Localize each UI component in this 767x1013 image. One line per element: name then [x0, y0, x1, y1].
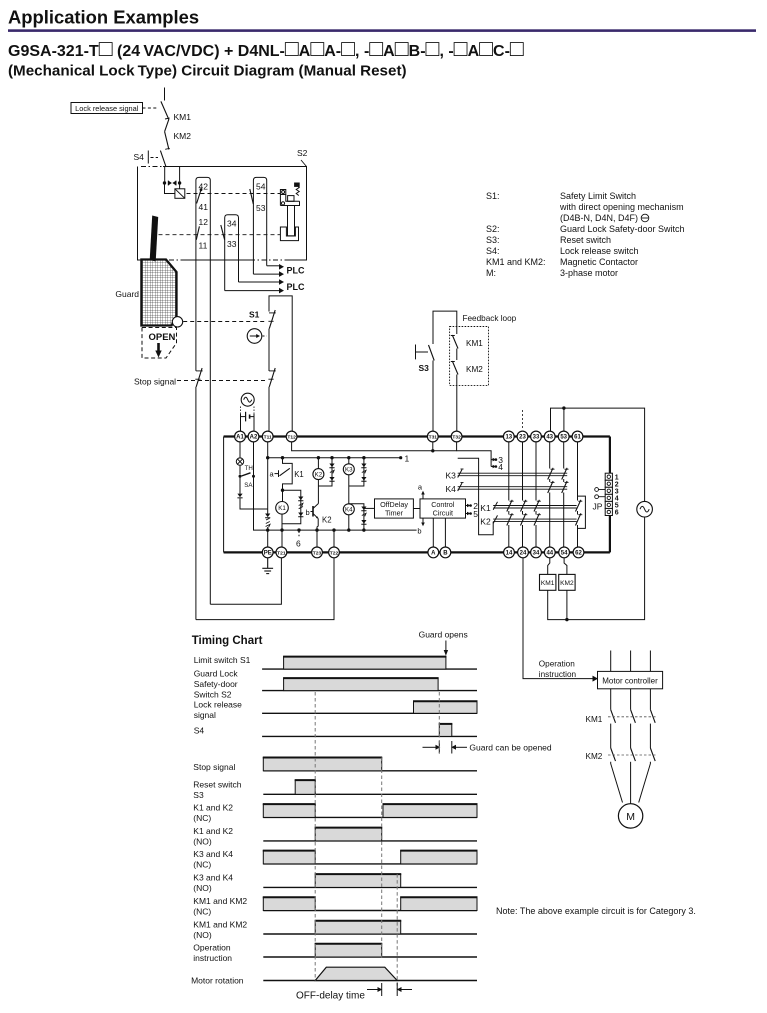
- wire diode branch to OffDelay Timer: [364, 507, 375, 509]
- svg-text:K4: K4: [446, 484, 457, 494]
- wire S2 11-line to T22: [196, 558, 334, 620]
- wire K3 to K4: [348, 475, 350, 504]
- timing dashed guide line 2: [381, 758, 383, 959]
- terminal B: [440, 547, 451, 558]
- svg-text:(NC): (NC): [193, 906, 211, 916]
- svg-text:Application Examples: Application Examples: [8, 7, 199, 28]
- svg-text:Feedback loop: Feedback loop: [463, 314, 517, 323]
- S1 direct-opening symbol (circle with arrow): [247, 329, 262, 344]
- wire 54 to PLC: [253, 273, 279, 275]
- legend direct-opening icon: [641, 214, 649, 222]
- terminal PE: [262, 547, 273, 558]
- open direction arrow: [155, 343, 161, 358]
- contact blade 34-33: [221, 225, 225, 240]
- terminal 13: [503, 431, 514, 442]
- wire B to control circuit: [444, 518, 446, 547]
- svg-text:S3: S3: [419, 363, 430, 373]
- svg-text:S3: S3: [193, 790, 204, 800]
- wire 53 to PLC: [267, 265, 279, 267]
- terminal A2: [248, 431, 259, 442]
- contact blade 12-11: [196, 226, 199, 239]
- svg-text:OFF-delay time: OFF-delay time: [296, 991, 365, 1002]
- wire battery to A1: [240, 414, 242, 431]
- relay K1 control contact a: [283, 458, 293, 502]
- wire A to control circuit: [432, 518, 434, 547]
- contact circuit wire x=577.5: [577, 442, 579, 501]
- wire K1 coil to T21: [281, 514, 283, 547]
- timing dashed guide line 1: [314, 692, 316, 981]
- svg-text:S1: S1: [249, 310, 260, 320]
- svg-text:Motor controller: Motor controller: [602, 676, 658, 685]
- svg-text:6: 6: [296, 539, 301, 549]
- svg-text:3-phase motor: 3-phase motor: [560, 268, 618, 278]
- internal supply bus node 1: [268, 457, 401, 459]
- svg-text:K3: K3: [446, 471, 457, 481]
- guard can be opened annotation: [423, 746, 437, 748]
- junction above 53: [562, 406, 565, 409]
- terminal 44: [544, 547, 555, 558]
- terminal A1: [235, 431, 246, 442]
- svg-text:5: 5: [615, 503, 619, 510]
- svg-text:K4: K4: [345, 507, 353, 514]
- relay coils K3 and K4 branch: [347, 456, 350, 459]
- heading underline rule: [8, 29, 756, 32]
- svg-text:K1 and K2: K1 and K2: [193, 803, 233, 813]
- relay unit right bold bus with JP: [609, 437, 611, 553]
- svg-text:Motor rotation: Motor rotation: [191, 976, 244, 986]
- svg-text:signal: signal: [194, 710, 216, 720]
- svg-text:PLC: PLC: [287, 266, 306, 276]
- svg-text:PLC: PLC: [287, 282, 306, 292]
- svg-text:M: M: [626, 811, 635, 823]
- svg-text:Safety Limit Switch: Safety Limit Switch: [560, 191, 636, 201]
- S2 contact block 34/33: [225, 215, 239, 291]
- wire KM coils to AC return: [548, 517, 645, 620]
- wire A1 branch join T11 line: [240, 498, 268, 509]
- switch S2 enclosure box: [163, 167, 307, 261]
- svg-text:34: 34: [533, 550, 540, 556]
- wire from S4 to junction node: [164, 167, 166, 184]
- terminal T11: [262, 431, 273, 442]
- svg-text:K2: K2: [322, 516, 332, 525]
- tap to points 3 and 4: [457, 451, 492, 467]
- contactor coil KM1: [540, 574, 556, 590]
- wire 44 to KM1 coil: [548, 558, 550, 575]
- contact circuit wire x=563.7: [563, 442, 565, 469]
- terminal T22: [329, 547, 340, 558]
- svg-text:KM2: KM2: [586, 752, 603, 761]
- svg-text:24: 24: [520, 550, 527, 556]
- svg-text:14: 14: [506, 550, 513, 556]
- flyback diodes on K1 branch: [298, 497, 303, 501]
- terminal 43: [544, 431, 555, 442]
- svg-text:A2: A2: [250, 434, 258, 440]
- svg-text:61: 61: [574, 434, 581, 440]
- svg-text:33: 33: [533, 434, 540, 440]
- svg-text:S3:: S3:: [486, 235, 500, 245]
- svg-text:with direct opening mechanism: with direct opening mechanism: [559, 202, 684, 212]
- svg-text:Guard: Guard: [115, 289, 139, 299]
- K4 row left actuator tick: [458, 483, 462, 491]
- svg-text:K3 and K4: K3 and K4: [193, 849, 233, 859]
- wires KM2 to motor: [611, 762, 623, 803]
- svg-text:T22: T22: [330, 550, 339, 556]
- wire S1 branch loop top: [269, 296, 292, 431]
- switch S4 lock release switch: [160, 151, 166, 167]
- motor controller output lines: [610, 689, 612, 710]
- internal bus from T12 to T31 T32: [292, 442, 457, 451]
- svg-text:instruction: instruction: [193, 953, 232, 963]
- stop contact on S2 branch wire: [196, 368, 203, 387]
- svg-text:4: 4: [498, 462, 503, 472]
- AC source circle at A1/A2: [241, 393, 254, 406]
- wire T11 down to PE with protection elements: [267, 442, 269, 514]
- control circuit arrow b: [422, 518, 424, 523]
- svg-text:M:: M:: [486, 268, 496, 278]
- contactor coil KM2: [559, 574, 575, 590]
- terminal T21: [276, 547, 287, 558]
- svg-text:T23: T23: [313, 550, 322, 556]
- svg-text:(D4B-N, D4N, D4F): (D4B-N, D4N, D4F): [560, 213, 638, 223]
- terminal 53: [558, 431, 569, 442]
- svg-text:54: 54: [256, 182, 266, 192]
- wire A2 to internal bottom bus: [254, 442, 417, 530]
- svg-text:S4:: S4:: [486, 246, 500, 256]
- contact circuit wire x=549.7: [549, 442, 551, 469]
- svg-text:Timing Chart: Timing Chart: [192, 635, 263, 647]
- svg-text:S2: S2: [297, 148, 308, 158]
- dashed link stop signal: [177, 380, 266, 382]
- 3-phase motor M: [618, 804, 642, 828]
- junction node 6 tap: [297, 528, 300, 531]
- junction T31 on bus: [431, 449, 434, 452]
- wire 34 to PLC: [225, 290, 279, 292]
- contact KM1 in feedback loop: [451, 335, 458, 349]
- svg-text:Reset switch: Reset switch: [193, 780, 241, 790]
- svg-text:KM1: KM1: [586, 715, 603, 724]
- relay unit top terminal bus: [224, 435, 610, 437]
- svg-text:K1: K1: [480, 503, 491, 513]
- svg-text:Circuit: Circuit: [433, 508, 453, 517]
- terminal 61: [572, 431, 583, 442]
- terminal 14: [504, 547, 515, 558]
- relay coil K4: [343, 504, 354, 515]
- switch S1 contact: [269, 310, 276, 329]
- svg-text:53: 53: [256, 203, 266, 213]
- junction KM2 return: [565, 618, 568, 621]
- relay coil K2: [317, 456, 320, 459]
- control circuit tap 2: [466, 505, 469, 507]
- svg-text:T11: T11: [264, 434, 272, 440]
- svg-text:62: 62: [575, 550, 582, 556]
- svg-text:KM1: KM1: [174, 112, 192, 122]
- K3 linkage bar: [458, 472, 568, 474]
- svg-text:1: 1: [405, 453, 410, 463]
- contact KM2 (NC in lock release line): [165, 132, 169, 150]
- K2 linkage bar: [493, 518, 576, 520]
- K2 row left actuator tick: [493, 515, 497, 523]
- reset switch S3 contact: [429, 345, 435, 361]
- K3 row left actuator tick: [458, 470, 462, 478]
- svg-text:Operation: Operation: [539, 660, 575, 669]
- svg-text:(NC): (NC): [193, 860, 211, 870]
- control circuit tap 5: [466, 513, 469, 515]
- wire battery to A2: [253, 414, 255, 431]
- flyback diode branch K4: [349, 504, 364, 530]
- svg-text:KM1 and KM2: KM1 and KM2: [193, 919, 247, 929]
- svg-text:Lock release switch: Lock release switch: [560, 246, 639, 256]
- svg-text:44: 44: [546, 550, 553, 556]
- svg-text:Operation: Operation: [193, 942, 231, 952]
- svg-text:34: 34: [227, 219, 237, 229]
- wire 24 to operation instruction: [523, 558, 594, 679]
- svg-text:(NO): (NO): [193, 930, 212, 940]
- wire feedback box to T32: [456, 375, 458, 432]
- wire transistor emitter to T23: [317, 519, 318, 548]
- contact blade 54-53: [250, 189, 254, 204]
- svg-text:Lock release signal: Lock release signal: [75, 104, 139, 113]
- terminal 24: [518, 547, 529, 558]
- S2 contact block 42/41/12/11: [196, 177, 210, 604]
- flyback diode branch K2: [330, 456, 333, 459]
- svg-text:K3 and K4: K3 and K4: [193, 873, 233, 883]
- svg-text:23: 23: [519, 434, 526, 440]
- S2 contact block 54/53: [253, 177, 266, 274]
- svg-text:Limit switch S1: Limit switch S1: [194, 655, 251, 665]
- K4 linkage bar: [458, 486, 568, 488]
- S3 branch loop top: [433, 311, 457, 344]
- terminal A: [428, 547, 439, 558]
- AC source circle right: [637, 501, 653, 517]
- wire from top to lock-release contact: [164, 88, 166, 101]
- K1 linkage bar: [493, 505, 576, 507]
- svg-text:S4: S4: [134, 152, 145, 162]
- svg-text:Reset switch: Reset switch: [560, 235, 611, 245]
- guard door (hatched): [141, 260, 176, 326]
- relay unit bottom terminal bus: [224, 551, 610, 553]
- svg-text:Guard can be opened: Guard can be opened: [469, 743, 552, 753]
- svg-text:K3: K3: [345, 467, 353, 474]
- back-to-back diode symbol between junctions: [168, 181, 176, 186]
- guard roller: [172, 317, 182, 327]
- Control Circuit box: [420, 499, 466, 518]
- contact KM1 (NC in lock release line): [161, 101, 169, 131]
- relay unit left edge: [223, 437, 225, 553]
- wire junction-right up to box edge: [179, 167, 181, 184]
- terminal T32: [451, 431, 462, 442]
- guard open position (dashed outline): [142, 328, 177, 359]
- lock release signal box: [71, 103, 143, 114]
- svg-text:Magnetic Contactor: Magnetic Contactor: [560, 257, 638, 267]
- svg-text:T12: T12: [287, 434, 296, 440]
- wire AC source to 43/53 feed: [551, 408, 645, 501]
- svg-text:54: 54: [561, 550, 568, 556]
- linkage left frame: [458, 458, 494, 534]
- wire T22 to internal bottom bus: [333, 530, 335, 547]
- contact circuit wire x=536: [535, 442, 537, 501]
- svg-text:Safety-door: Safety-door: [194, 679, 238, 689]
- svg-text:Stop signal: Stop signal: [134, 377, 176, 387]
- svg-text:KM2: KM2: [174, 131, 192, 141]
- Motor controller box: [598, 671, 663, 688]
- svg-text:S4: S4: [194, 726, 205, 736]
- wire timer to control circuit: [413, 508, 420, 510]
- svg-text:KM1: KM1: [541, 580, 555, 587]
- svg-text:(Mechanical Lock Type) Circuit: (Mechanical Lock Type) Circuit Diagram (…: [8, 63, 407, 80]
- wire junction-right down to solenoid top: [179, 183, 181, 189]
- svg-text:T31: T31: [429, 434, 438, 440]
- svg-text:KM1: KM1: [466, 339, 483, 348]
- svg-text:K2: K2: [315, 472, 323, 479]
- stop contact on S1 branch: [269, 368, 276, 387]
- jumper connector JP: [605, 473, 619, 516]
- svg-text:(NO): (NO): [193, 883, 212, 893]
- svg-text:(NC): (NC): [193, 813, 211, 823]
- svg-text:33: 33: [227, 239, 237, 249]
- thermal element TH on A1 branch: [239, 442, 241, 458]
- svg-text:Guard Lock: Guard Lock: [194, 669, 239, 679]
- motor controller input lines: [610, 651, 612, 672]
- terminal T12: [286, 431, 297, 442]
- contact circuit wire x=522.5: [522, 442, 524, 501]
- terminal T31: [427, 431, 438, 442]
- junction node right: [178, 181, 181, 184]
- battery symbol: [241, 412, 255, 422]
- junction node left: [163, 181, 166, 184]
- terminal 54: [559, 547, 570, 558]
- svg-text:6: 6: [615, 510, 619, 517]
- svg-text:13: 13: [505, 434, 512, 440]
- solenoid (lock coil) square: [175, 189, 185, 199]
- timing dashed guide line 4: [438, 692, 440, 753]
- terminal 62: [573, 547, 584, 558]
- diode on A1 branch: [239, 477, 241, 494]
- dotted leads from AC source: [240, 407, 242, 415]
- guard actuator key (black blade): [150, 216, 159, 262]
- svg-text:2: 2: [615, 481, 619, 488]
- svg-text:Guard Lock Safety-door Switch: Guard Lock Safety-door Switch: [560, 224, 685, 234]
- junction T11-line on internal bottom bus: [266, 528, 269, 531]
- dashed linkage above 23: [522, 410, 524, 430]
- wire K4 to bottom bus: [348, 515, 350, 530]
- relay coil K1: [276, 502, 289, 515]
- timing dashed guide line 3: [396, 874, 398, 989]
- terminal 34: [531, 547, 542, 558]
- svg-text:b: b: [306, 508, 310, 517]
- svg-text:1: 1: [615, 474, 619, 481]
- terminal 33: [531, 431, 542, 442]
- svg-text:Guard opens: Guard opens: [419, 630, 468, 640]
- svg-text:4: 4: [615, 496, 619, 503]
- K1 row left actuator tick: [493, 502, 497, 510]
- svg-text:T21: T21: [277, 550, 286, 556]
- svg-text:KM1 and KM2: KM1 and KM2: [193, 896, 247, 906]
- svg-text:41: 41: [199, 202, 209, 212]
- linkage right bracket: [578, 496, 586, 528]
- wire 54 to KM2 coil: [564, 558, 567, 575]
- svg-text:A1: A1: [236, 434, 244, 440]
- flyback diode branch K3: [362, 456, 365, 459]
- control circuit arrow a: [422, 494, 424, 499]
- svg-text:T32: T32: [452, 434, 461, 440]
- svg-text:(NO): (NO): [193, 837, 212, 847]
- switch SA: [239, 465, 241, 474]
- svg-text:3: 3: [615, 489, 619, 496]
- lock mechanism drawing: [280, 183, 299, 241]
- svg-text:SA: SA: [244, 482, 253, 489]
- dashed link guard roller to S1: [183, 321, 266, 323]
- wires KM1 to KM2: [610, 724, 612, 748]
- contact KM2 in feedback loop: [451, 361, 458, 375]
- wire into feedback box: [456, 327, 458, 335]
- svg-text:K2: K2: [480, 517, 491, 527]
- feedback loop dotted box: [450, 327, 489, 386]
- svg-text:53: 53: [560, 434, 567, 440]
- svg-text:KM2: KM2: [466, 365, 483, 374]
- svg-text:TH: TH: [245, 465, 253, 472]
- svg-text:PE: PE: [264, 550, 272, 556]
- svg-text:Switch S2: Switch S2: [194, 689, 232, 699]
- svg-text:12: 12: [199, 217, 209, 227]
- junction to K1 flyback branch: [281, 489, 284, 492]
- wire S2 12-line to T21: [210, 558, 281, 604]
- terminal T23: [312, 547, 323, 558]
- OffDelay Timer box: [375, 499, 414, 518]
- ground symbol at PE: [262, 558, 273, 574]
- svg-text:K1: K1: [278, 505, 286, 512]
- svg-text:OPEN: OPEN: [149, 332, 176, 343]
- JP pin stems: [595, 488, 606, 499]
- junction T11 on bus 1: [266, 456, 269, 459]
- dashed link from lock release box to contact: [143, 107, 159, 109]
- wire 33 to PLC: [239, 281, 280, 283]
- dashed mechanical link guard key to lock catch: [159, 234, 281, 236]
- svg-text:5: 5: [473, 509, 478, 519]
- contact blade 42-41: [200, 188, 203, 191]
- dashed mechanical link solenoid to lock plunger: [187, 193, 281, 195]
- svg-text:Stop signal: Stop signal: [193, 762, 235, 772]
- svg-text:instruction: instruction: [539, 670, 577, 679]
- terminal 23: [517, 431, 528, 442]
- contact circuit wire x=508.8: [508, 442, 510, 501]
- svg-text:b: b: [417, 527, 421, 536]
- svg-text:K1 and K2: K1 and K2: [193, 826, 233, 836]
- transistor driving K2: [317, 480, 319, 504]
- svg-text:KM1 and KM2:: KM1 and KM2:: [486, 257, 546, 267]
- svg-text:KM2: KM2: [560, 580, 574, 587]
- svg-text:S2:: S2:: [486, 224, 500, 234]
- svg-text:A: A: [431, 550, 436, 556]
- svg-text:11: 11: [199, 241, 208, 251]
- svg-text:43: 43: [546, 434, 553, 440]
- svg-text:Timer: Timer: [385, 508, 404, 517]
- svg-text:S1:: S1:: [486, 191, 500, 201]
- relay coil K3: [343, 464, 354, 475]
- wire junction-left down to solenoid: [165, 183, 175, 194]
- svg-text:JP: JP: [593, 502, 603, 512]
- svg-text:Note: The above example circui: Note: The above example circuit is for C…: [496, 906, 696, 916]
- svg-text:Lock release: Lock release: [194, 700, 242, 710]
- svg-text:B: B: [443, 550, 448, 556]
- svg-text:K1: K1: [294, 470, 304, 479]
